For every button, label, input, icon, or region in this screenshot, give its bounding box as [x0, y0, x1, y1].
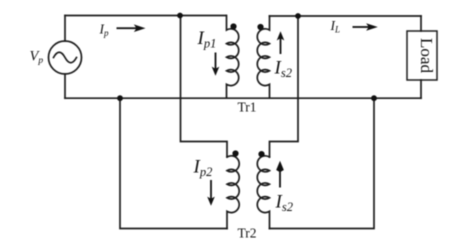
- wire middle rail: [65, 97, 421, 99]
- wire load top lead: [420, 16, 422, 31]
- voltage source Vp: [49, 41, 82, 74]
- load resistor: [407, 31, 437, 80]
- transformer Tr2 primary winding: [227, 156, 239, 229]
- svg-text:Is2: Is2: [274, 58, 292, 80]
- arrow Ip2: [207, 180, 215, 206]
- wire node A to Tr2 primary top: [181, 16, 228, 158]
- wire source top lead: [64, 16, 66, 42]
- svg-text:Vp: Vp: [30, 49, 44, 67]
- junction node D: [371, 95, 377, 101]
- svg-text:Is2: Is2: [275, 192, 293, 214]
- arrow Ip: [117, 24, 146, 32]
- arrow Ip1: [212, 53, 220, 76]
- svg-text:Ip: Ip: [99, 22, 110, 38]
- wire top rail left: [65, 15, 226, 17]
- arrow Is2 Tr1: [277, 31, 285, 54]
- svg-text:IL: IL: [330, 18, 341, 34]
- transformer Tr2 secondary winding: [257, 156, 269, 229]
- svg-text:Ip2: Ip2: [193, 157, 213, 179]
- wire Tr2 secondary return: [270, 98, 375, 228]
- wire source bottom lead: [64, 74, 66, 98]
- junction node B: [295, 13, 301, 19]
- polarity dot Tr1 secondary: [257, 24, 263, 30]
- wire node B to Tr2 secondary top: [270, 16, 299, 157]
- polarity dot Tr2 primary: [232, 150, 238, 156]
- polarity dot Tr2 secondary: [258, 151, 264, 157]
- junction node A: [177, 13, 183, 19]
- junction node C: [117, 95, 123, 101]
- svg-text:Tr2: Tr2: [238, 226, 257, 241]
- polarity dot Tr1 primary: [230, 23, 236, 29]
- svg-text:Load: Load: [417, 38, 436, 73]
- svg-text:Ip1: Ip1: [197, 28, 217, 50]
- transformer Tr1 primary winding: [227, 16, 239, 99]
- wire load bottom lead: [420, 80, 422, 98]
- wire top rail right: [270, 15, 422, 17]
- transformer Tr1 secondary winding: [257, 16, 269, 98]
- arrow Is2 Tr2: [276, 161, 284, 188]
- arrow IL: [353, 23, 378, 31]
- svg-text:Tr1: Tr1: [238, 100, 257, 115]
- wire Tr2 primary return: [120, 98, 227, 228]
